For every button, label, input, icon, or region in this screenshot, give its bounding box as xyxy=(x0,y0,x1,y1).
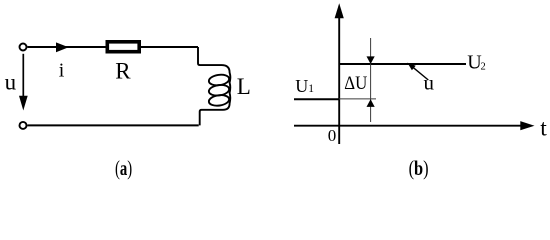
svg-text:R: R xyxy=(115,59,131,84)
inductor L coil loop 2 xyxy=(208,84,230,97)
svg-text:0: 0 xyxy=(328,126,337,145)
voltage arrow u (shaft) xyxy=(22,54,24,98)
resistor R xyxy=(107,42,139,52)
U2 level line xyxy=(339,63,466,65)
terminal top-left xyxy=(20,44,27,51)
axis horizontal arrowhead xyxy=(520,121,534,130)
svg-text:L: L xyxy=(237,74,251,99)
svg-text:u: u xyxy=(5,70,17,95)
axis vertical arrowhead xyxy=(335,3,344,18)
U1 level line xyxy=(294,98,339,100)
svg-text:i: i xyxy=(59,60,65,82)
wire top (terminal to top-right corner) xyxy=(27,46,198,48)
svg-text:ΔU: ΔU xyxy=(344,73,367,94)
svg-text:(b): (b) xyxy=(409,156,429,180)
dimension arrow down xyxy=(367,56,375,64)
svg-text:t: t xyxy=(540,116,547,142)
inductor L coil loop 1 xyxy=(208,73,230,86)
axis horizontal t (shaft) xyxy=(294,125,522,127)
u annotation arrow (head) xyxy=(407,63,415,71)
dimension arrow up xyxy=(367,99,375,107)
inductor L coil loop 3 xyxy=(208,94,230,107)
wire bottom (terminal to under inductor) xyxy=(27,124,198,126)
svg-text:(a): (a) xyxy=(115,156,132,180)
svg-text:u: u xyxy=(424,71,435,95)
axis vertical (shaft) xyxy=(338,16,340,144)
voltage arrow u (head) xyxy=(19,96,28,111)
current arrow i xyxy=(56,42,69,52)
wire right vertical into inductor entry and through coil spine to bottom wire xyxy=(198,47,230,125)
U1 extension thin line xyxy=(339,98,376,100)
u annotation arrow (shaft) xyxy=(413,67,429,80)
terminal bottom-left xyxy=(20,122,27,129)
dimension line xyxy=(370,38,372,122)
